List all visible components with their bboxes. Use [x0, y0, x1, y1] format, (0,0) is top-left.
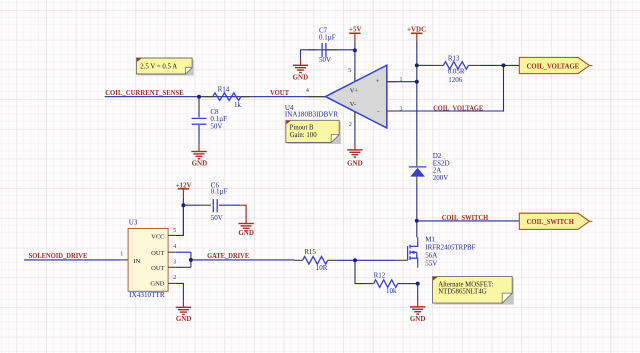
svg-text:COIL_CURRENT_SENSE: COIL_CURRENT_SENSE	[105, 89, 184, 97]
svg-text:3: 3	[173, 260, 176, 266]
node: junction pin1	[415, 80, 419, 84]
transistor M1 (n-mosfet)	[408, 235, 476, 267]
resistor R13	[417, 54, 520, 84]
svg-text:5: 5	[348, 68, 351, 74]
svg-text:200V: 200V	[433, 174, 449, 182]
wire U4 pin3 COIL_VOLTAGE	[387, 65, 504, 111]
ground below U3	[176, 301, 191, 315]
svg-text:1206: 1206	[448, 76, 463, 84]
svg-text:GND: GND	[176, 315, 192, 323]
svg-text:2: 2	[173, 275, 176, 281]
svg-text:GND: GND	[347, 159, 363, 167]
svg-text:0.1µF: 0.1µF	[319, 34, 336, 42]
svg-text:+VDC: +VDC	[407, 26, 426, 34]
svg-text:0.05R: 0.05R	[448, 68, 465, 76]
wire +VDC rail down to diode	[416, 42, 418, 158]
svg-text:IN: IN	[133, 258, 140, 265]
capacitor C6	[183, 182, 240, 223]
wire SOLENOID_DRIVE to U3 pin1	[24, 259, 121, 261]
svg-text:0.1µF: 0.1µF	[211, 187, 228, 195]
resistor R12	[355, 260, 418, 295]
resistor R15	[294, 248, 339, 272]
node: junction R12 / source	[416, 282, 420, 286]
pin 2 of U4 to ground	[354, 112, 356, 144]
IC U3 IX4310TTR	[128, 218, 168, 299]
svg-text:+12V: +12V	[175, 182, 191, 190]
svg-text:Pinout B: Pinout B	[290, 124, 314, 131]
wire joining OUT pins	[190, 252, 192, 267]
node: junction OUT pins	[189, 258, 193, 262]
node: junction +5V / C7	[353, 48, 357, 52]
svg-text:OUT: OUT	[151, 250, 164, 257]
svg-text:OUT: OUT	[151, 265, 164, 272]
svg-text:GND: GND	[410, 315, 426, 323]
svg-text:+: +	[376, 78, 380, 85]
diode D2	[409, 152, 450, 183]
node: junction R13 left	[415, 63, 419, 67]
svg-text:IRFR2405TRPBF: IRFR2405TRPBF	[425, 243, 475, 251]
svg-text:5: 5	[173, 228, 176, 234]
op-amp U4 INA180B3IDBVR	[285, 65, 387, 128]
ground below M1	[410, 302, 425, 314]
wire GATE_DRIVE	[191, 259, 294, 261]
svg-text:55V: 55V	[425, 260, 437, 268]
svg-text:GND: GND	[293, 73, 309, 81]
ground below C7 left	[293, 58, 308, 72]
wire to COIL_SWITCH port	[417, 220, 520, 222]
wire diode to mosfet drain	[416, 183, 418, 238]
port COIL_SWITCH	[519, 213, 592, 229]
svg-text:10k: 10k	[386, 287, 397, 295]
svg-text:COIL_VOLTAGE: COIL_VOLTAGE	[527, 63, 580, 71]
svg-text:R12: R12	[374, 272, 386, 280]
svg-text:COIL_VOLTAGE: COIL_VOLTAGE	[433, 104, 483, 112]
svg-text:10R: 10R	[316, 264, 328, 272]
svg-text:56A: 56A	[425, 252, 437, 260]
capacitor C8	[192, 108, 228, 130]
svg-text:NTD5865NLT4G: NTD5865NLT4G	[438, 289, 487, 296]
svg-text:-: -	[377, 108, 379, 115]
svg-text:1: 1	[120, 252, 123, 258]
svg-text:COIL_SWITCH: COIL_SWITCH	[442, 214, 489, 222]
ground below U4	[347, 144, 362, 157]
wire C8 to ground	[198, 125, 200, 145]
node: junction R13 right	[502, 63, 506, 67]
pin 5 of U3 (VCC)	[168, 234, 176, 236]
svg-text:VOUT: VOUT	[270, 89, 289, 97]
svg-text:R15: R15	[304, 248, 316, 256]
wire U4 pin1 to +VDC rail	[387, 81, 417, 83]
svg-text:M1: M1	[425, 235, 435, 243]
svg-text:VCC: VCC	[151, 233, 164, 240]
wire +5V down to U4 pin5	[354, 42, 356, 82]
svg-text:V+: V+	[350, 87, 359, 94]
pin 4 of U4	[309, 96, 326, 98]
svg-text:GND: GND	[150, 281, 164, 288]
svg-text:R13: R13	[448, 54, 460, 62]
pin 2 of U3 (GND)	[168, 282, 176, 284]
note: 2.5 V = 0.5 A	[136, 58, 193, 76]
svg-text:50V: 50V	[211, 214, 223, 222]
node: junction at C8 tap	[197, 95, 201, 99]
svg-text:1k: 1k	[234, 101, 242, 109]
capacitor C7	[301, 27, 355, 64]
svg-text:2.5 V = 0.5 A: 2.5 V = 0.5 A	[140, 64, 177, 71]
svg-text:INA180B3IDBVR: INA180B3IDBVR	[285, 110, 339, 118]
ground below C8	[191, 145, 206, 159]
svg-text:COIL_SWITCH: COIL_SWITCH	[527, 218, 575, 226]
ground right of C6	[238, 205, 253, 231]
svg-text:GATE_DRIVE: GATE_DRIVE	[207, 252, 249, 260]
svg-text:+5V: +5V	[349, 26, 362, 34]
wire junction to C8	[198, 97, 200, 118]
wire R15 to gate	[338, 259, 394, 261]
wire +12V to VCC	[182, 198, 184, 236]
svg-text:Alternate MOSFET:: Alternate MOSFET:	[438, 281, 493, 288]
note: Alternate MOSFET	[433, 277, 514, 305]
pin 3 of U3 (OUT)	[168, 266, 176, 268]
svg-text:2: 2	[349, 122, 352, 128]
port COIL_VOLTAGE	[519, 57, 592, 73]
svg-text:4: 4	[306, 88, 309, 94]
svg-text:GND: GND	[238, 229, 254, 237]
node: junction COIL_SWITCH	[415, 219, 419, 223]
power port +VDC	[411, 33, 422, 41]
svg-text:50V: 50V	[210, 122, 222, 130]
svg-text:50V: 50V	[319, 56, 331, 64]
svg-text:U3: U3	[129, 218, 138, 226]
svg-text:V-: V-	[350, 101, 356, 108]
svg-text:IX4310TTR: IX4310TTR	[129, 291, 165, 299]
svg-text:SOLENOID_DRIVE: SOLENOID_DRIVE	[29, 252, 88, 260]
resistor R14	[204, 85, 250, 109]
svg-text:R14: R14	[218, 85, 230, 93]
svg-text:Gain: 100: Gain: 100	[290, 132, 318, 139]
svg-text:1: 1	[400, 77, 403, 83]
pin 4 of U3 (OUT)	[168, 251, 176, 253]
power port +5V	[349, 33, 360, 41]
power port +12V	[178, 189, 189, 198]
node: junction gate / R12	[353, 258, 357, 262]
node: junction +12V / C6	[181, 203, 185, 207]
svg-text:4: 4	[173, 244, 176, 250]
note: Pinout B / Gain: 100	[286, 120, 341, 144]
wire COIL_CURRENT_SENSE to R14 to U4 pin4	[105, 96, 326, 98]
wire source to ground	[417, 284, 419, 302]
svg-text:GND: GND	[192, 159, 208, 167]
svg-text:3: 3	[400, 106, 403, 112]
